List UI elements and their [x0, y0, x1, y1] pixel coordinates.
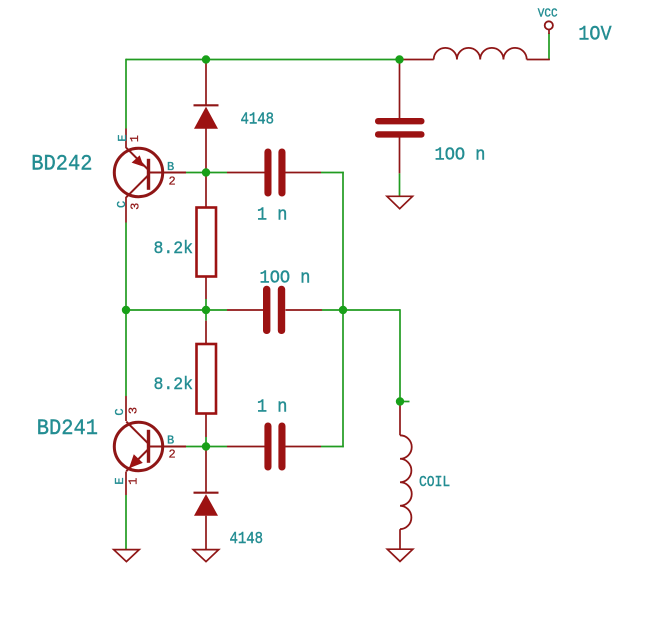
wire C1 to right loop [321, 172, 344, 174]
svg-text:BD242: BD242 [31, 152, 92, 177]
svg-text:1 n: 1 n [257, 397, 288, 418]
wire C4 top pin [399, 60, 401, 119]
resistor R1 [197, 208, 217, 277]
capacitor C1 [264, 149, 285, 197]
wire L2 top pin [399, 406, 401, 436]
wire Q1 base to node [186, 172, 206, 174]
svg-text:C: C [113, 408, 127, 415]
wire C3 to right loop [321, 446, 344, 448]
wire middle rail left [126, 309, 227, 311]
svg-text:COIL: COIL [419, 475, 450, 491]
wire D2 cathode pin [205, 516, 207, 550]
wire Q2 base pin [149, 446, 187, 448]
svg-text:3: 3 [127, 407, 141, 414]
inductor L1 [434, 48, 527, 60]
node junction Q2 base [202, 442, 210, 450]
svg-text:1OO n: 1OO n [435, 145, 486, 166]
wire coil branch vertical [399, 309, 401, 405]
diode D2 [194, 493, 219, 516]
wire R2 top pin [205, 321, 207, 344]
svg-text:4148: 4148 [230, 529, 264, 548]
svg-text:B: B [167, 160, 174, 174]
node junction top rail at C4 [395, 55, 403, 63]
wire C1 right pin [286, 172, 322, 174]
diode D1 [194, 105, 219, 129]
wire left rail lower [125, 495, 127, 550]
wire Q2 collector pin [125, 396, 127, 421]
svg-text:1 n: 1 n [257, 205, 288, 226]
wire Q2 emitter pin [125, 472, 127, 496]
power VCC port [545, 21, 553, 29]
ground G3 [193, 550, 219, 562]
svg-text:3: 3 [129, 203, 143, 210]
ground G1 [387, 196, 413, 208]
node junction mid rail left [122, 306, 130, 314]
node junction mid rail right [339, 306, 347, 314]
wire L1 right pin [527, 59, 550, 61]
svg-text:2: 2 [169, 174, 176, 188]
svg-text:B: B [167, 434, 174, 448]
svg-text:1: 1 [128, 135, 142, 142]
wire top rail [126, 59, 400, 61]
wire L2 bottom pin [399, 529, 401, 549]
wire Q1 base pin [149, 172, 187, 174]
wire node to C3 [206, 446, 227, 448]
svg-text:2: 2 [169, 448, 176, 462]
wire left rail upper [125, 59, 127, 129]
wire C4 to ground [399, 173, 401, 196]
wire Q2 base to node [186, 446, 206, 448]
svg-text:8.2k: 8.2k [154, 239, 194, 259]
wire D1 anode pin [205, 60, 207, 106]
wire C2 to right loop [322, 309, 343, 311]
wire C4 bottom pin [399, 138, 401, 174]
wire Q1 collector pin [125, 197, 127, 223]
wire C1 left pin [227, 172, 265, 174]
svg-text:1OV: 1OV [578, 23, 612, 46]
svg-text:C: C [115, 201, 129, 208]
transistor Q2 BD241 [114, 422, 162, 472]
capacitor C4 [375, 118, 425, 138]
wire stub at coil node [404, 401, 410, 403]
wire D2 anode pin [205, 447, 207, 493]
ground G4 [387, 549, 413, 561]
wire right loop to coil branch [343, 309, 400, 311]
wire L1 left pin [400, 59, 434, 61]
wire R2 bottom to node [205, 437, 207, 447]
ground G2 [114, 550, 140, 562]
resistor R2 [197, 344, 217, 414]
capacitor C3 [264, 423, 285, 471]
svg-text:1: 1 [126, 478, 140, 485]
svg-text:4148: 4148 [241, 109, 275, 128]
wire R1 top pin [205, 173, 207, 208]
wire C3 left pin [227, 446, 265, 448]
wire C2 left pin [227, 309, 263, 311]
svg-text:VCC: VCC [538, 7, 558, 20]
svg-text:E: E [113, 477, 127, 484]
svg-text:BD241: BD241 [37, 416, 98, 441]
node junction top rail at D1 [202, 55, 210, 63]
wire node to C1 [206, 172, 227, 174]
node junction Q1 base [202, 168, 210, 176]
transistor Q1 BD242 [114, 148, 162, 197]
wire C3 right pin [286, 446, 322, 448]
wire R1 bottom pin [205, 277, 207, 300]
wire VCC stick [548, 30, 550, 35]
wire VCC drop [548, 33, 550, 60]
wire D1 cathode pin [205, 129, 207, 173]
inductor L2 COIL [400, 435, 412, 529]
wire C2 right pin [286, 309, 323, 311]
wire R1 bottom to mid node [205, 299, 207, 321]
wire R2 bottom pin [205, 414, 207, 438]
wire Q1 emitter pin [125, 129, 127, 149]
svg-text:8.2k: 8.2k [154, 376, 194, 396]
node junction mid rail center [202, 306, 210, 314]
capacitor C2 [263, 286, 285, 334]
wire left rail middle [125, 223, 127, 397]
svg-text:1OO n: 1OO n [260, 268, 311, 289]
node junction coil top [396, 397, 404, 405]
wire right loop vertical [342, 172, 344, 448]
